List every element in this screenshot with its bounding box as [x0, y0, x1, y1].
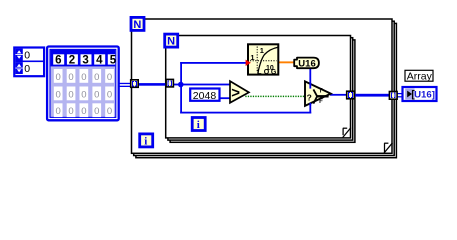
svg-text:F: F	[319, 99, 323, 105]
numeric constant 2048	[190, 89, 219, 102]
wire boolean dotted from greater-than to select	[245, 95, 305, 97]
indicator terminal Array U16	[403, 87, 437, 101]
svg-text:U16: U16	[298, 58, 315, 69]
svg-text:0: 0	[56, 89, 61, 100]
svg-text:0: 0	[107, 72, 112, 83]
svg-text:L: L	[257, 69, 262, 76]
svg-text:0: 0	[94, 72, 99, 83]
outer loop dog-ear corner	[384, 143, 393, 153]
svg-text:0: 0	[94, 106, 99, 117]
U16 conversion function	[294, 58, 319, 70]
wire 1D array between right tunnels	[355, 94, 391, 97]
svg-text:0: 0	[68, 89, 73, 100]
tunnel inner left auto-indexing	[166, 79, 173, 87]
svg-text:3: 3	[82, 55, 88, 67]
inner loop iteration terminal i	[192, 118, 205, 131]
greater-than function	[230, 81, 249, 103]
outer loop count terminal N	[131, 17, 144, 30]
svg-text:O: O	[264, 69, 270, 76]
wire 1D array between left tunnels	[138, 83, 168, 86]
array constant last dimmed cell	[105, 103, 114, 117]
tunnel outer right auto-indexing	[389, 92, 397, 100]
svg-text:i: i	[144, 135, 147, 147]
array constant dimmed element cells	[54, 69, 114, 117]
svg-text:?: ?	[307, 93, 312, 103]
wire 2D array from constant to outer tunnel	[119, 83, 131, 87]
indicator label Array	[405, 70, 433, 82]
wire from U16 conversion down to select t input	[309, 68, 311, 88]
inner loop count terminal N	[165, 34, 178, 47]
svg-text:0: 0	[81, 106, 86, 117]
svg-text:4: 4	[96, 55, 103, 67]
array index display	[14, 48, 44, 77]
inner for loop frame	[166, 36, 355, 143]
wire bottom rail	[180, 112, 311, 114]
svg-text:1: 1	[250, 53, 254, 62]
svg-text:0: 0	[68, 72, 73, 83]
svg-text:0: 0	[56, 72, 61, 83]
svg-text:0: 0	[56, 106, 61, 117]
wire up from bottom rail to select f input	[309, 103, 311, 114]
wire up from junction to log rail	[180, 62, 182, 85]
outer loop iteration terminal i	[140, 134, 153, 147]
wire orange from logarithm to U16 conversion	[278, 61, 294, 63]
select function	[305, 81, 331, 106]
svg-text:U16]: U16]	[414, 90, 435, 101]
inner loop dog-ear corner	[343, 128, 351, 138]
svg-text:1: 1	[260, 46, 264, 55]
svg-text:0: 0	[81, 72, 86, 83]
svg-text:2: 2	[69, 55, 75, 67]
svg-text:2048: 2048	[193, 90, 217, 102]
svg-text:>: >	[231, 85, 240, 102]
wire from select output to inner right tunnel	[330, 94, 347, 96]
outer for loop frame	[132, 19, 397, 158]
svg-text:6: 6	[55, 55, 61, 67]
svg-text:N: N	[167, 36, 175, 48]
svg-text:N: N	[133, 19, 141, 31]
coercion dot red at logarithm input	[246, 60, 251, 66]
wire 2D array from outer tunnel to indicator	[398, 93, 404, 97]
wire top rail to logarithm input	[180, 62, 246, 64]
svg-text:G: G	[271, 69, 277, 76]
svg-text:5: 5	[110, 55, 117, 67]
junction dot	[178, 82, 184, 88]
svg-text:i: i	[197, 119, 200, 131]
tunnel inner right auto-indexing	[347, 91, 355, 99]
wire scalar from inner left tunnel to greater-than	[173, 84, 231, 86]
svg-text:Array: Array	[407, 70, 433, 82]
tunnel outer left auto-indexing	[131, 80, 139, 88]
logarithm base 10 function U1	[248, 44, 278, 76]
svg-text:0: 0	[107, 106, 112, 117]
svg-text:T: T	[319, 89, 323, 95]
svg-text:0: 0	[107, 89, 112, 100]
svg-text:0: 0	[94, 89, 99, 100]
wire from 2048 constant to greater-than y input	[221, 97, 231, 99]
array constant 2D	[47, 47, 119, 121]
svg-text:0: 0	[68, 106, 73, 117]
svg-text:0: 0	[24, 50, 30, 62]
wire down from junction to bottom rail	[180, 85, 182, 114]
svg-text:0: 0	[81, 89, 86, 100]
svg-text:0: 0	[24, 63, 30, 75]
